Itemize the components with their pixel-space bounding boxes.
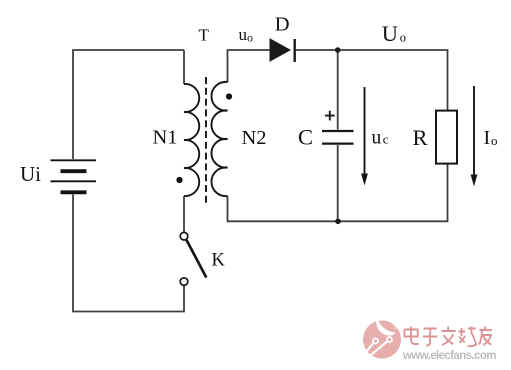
svg-text:u: u <box>372 127 382 148</box>
svg-text:o: o <box>491 133 498 148</box>
svg-text:U: U <box>382 21 398 46</box>
svg-text:C: C <box>298 125 313 150</box>
svg-text:N2: N2 <box>242 127 267 149</box>
svg-text:I: I <box>484 127 491 149</box>
svg-text:o: o <box>247 31 253 45</box>
svg-text:c: c <box>383 131 389 146</box>
svg-text:Ui: Ui <box>20 162 41 186</box>
svg-text:o: o <box>400 30 406 44</box>
svg-text:R: R <box>413 125 428 150</box>
svg-text:K: K <box>212 251 226 271</box>
svg-text:T: T <box>199 25 210 44</box>
svg-text:www.elecfans.com: www.elecfans.com <box>402 350 496 362</box>
svg-text:D: D <box>275 13 290 35</box>
svg-text:N1: N1 <box>153 126 178 148</box>
